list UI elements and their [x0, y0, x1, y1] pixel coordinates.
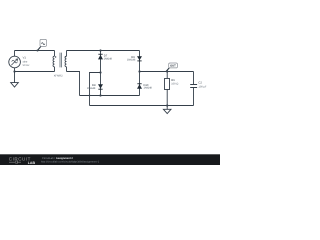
label XFMR2: [54, 74, 63, 77]
svg-text:1N4148: 1N4148: [104, 58, 113, 61]
svg-text:sine: sine: [23, 60, 28, 63]
label D8: [92, 84, 96, 87]
wire ground rail: [90, 105, 194, 107]
svg-text:V1: V1: [23, 57, 27, 60]
wire mid-left node to ground drop: [90, 73, 101, 106]
node junction bottom of left branch: [99, 94, 101, 96]
node junction R6 top: [166, 70, 168, 72]
svg-text:CircuitLab / Assignment 2: CircuitLab / Assignment 2: [42, 157, 73, 160]
diode D8: [98, 84, 103, 89]
svg-text:1N4148: 1N4148: [127, 59, 136, 62]
wire AC2 bottom rail: [80, 95, 140, 97]
diode D7: [98, 54, 103, 60]
annotation flag icon: [38, 39, 47, 50]
svg-text:C2: C2: [198, 81, 202, 84]
wire OUT rail: [140, 71, 194, 73]
diode D10: [137, 83, 142, 89]
node junction R6 bottom: [166, 104, 168, 106]
label D9: [131, 56, 135, 59]
svg-text:1N4148: 1N4148: [144, 87, 153, 90]
capacitor C2: [190, 72, 197, 106]
wire left bridge branch: [100, 51, 102, 96]
footer logo CIRCUIT LAB: [9, 156, 36, 164]
ground under R6: [163, 106, 171, 114]
wire secondary bottom to AC2 rail: [67, 72, 80, 96]
label C2: [198, 81, 202, 84]
svg-text:100 µF: 100 µF: [198, 86, 207, 89]
node junction V1 bottom: [13, 70, 15, 72]
svg-text:1N4148: 1N4148: [87, 87, 96, 90]
wire V1 bottom stub: [14, 68, 16, 72]
wire secondary top rail: [67, 50, 140, 52]
resistor R6: [165, 72, 170, 106]
footer text line2: [41, 161, 100, 164]
transformer phase dots: [55, 56, 66, 58]
footer text line1: [42, 157, 73, 160]
svg-text:LAB: LAB: [28, 161, 36, 165]
node junction mid-right: [138, 70, 140, 72]
transformer XFMR2: [53, 51, 67, 72]
svg-text:http://circuitlab.com/circuit/: http://circuitlab.com/circuit/dqkp3d84/a…: [41, 161, 100, 164]
crossing blob AC2 over ground drop: [89, 95, 91, 97]
label OUT: [170, 65, 176, 68]
node tag OUT: [166, 63, 177, 72]
node junction top of left branch: [99, 49, 101, 51]
svg-text:XFMR2: XFMR2: [54, 74, 63, 77]
ground under V1: [11, 72, 19, 88]
voltage source V1: [9, 56, 21, 68]
svg-text:100 Ω: 100 Ω: [171, 83, 178, 86]
label D10: [144, 84, 149, 87]
label V1 value: [23, 57, 27, 60]
label R6: [171, 79, 175, 82]
wire right bridge branch: [139, 51, 141, 96]
footer bar: [0, 154, 220, 165]
wire V1 top stub: [14, 51, 16, 57]
svg-text:OUT: OUT: [170, 65, 176, 68]
wire top rail V1 to primary: [15, 50, 55, 52]
node flag attach dot: [37, 50, 39, 52]
svg-text:50 Hz: 50 Hz: [23, 64, 30, 67]
wire V1 bottom to primary: [15, 71, 55, 73]
label D7: [104, 55, 108, 58]
diode D9: [137, 56, 142, 61]
node junction mid-left: [99, 71, 101, 73]
